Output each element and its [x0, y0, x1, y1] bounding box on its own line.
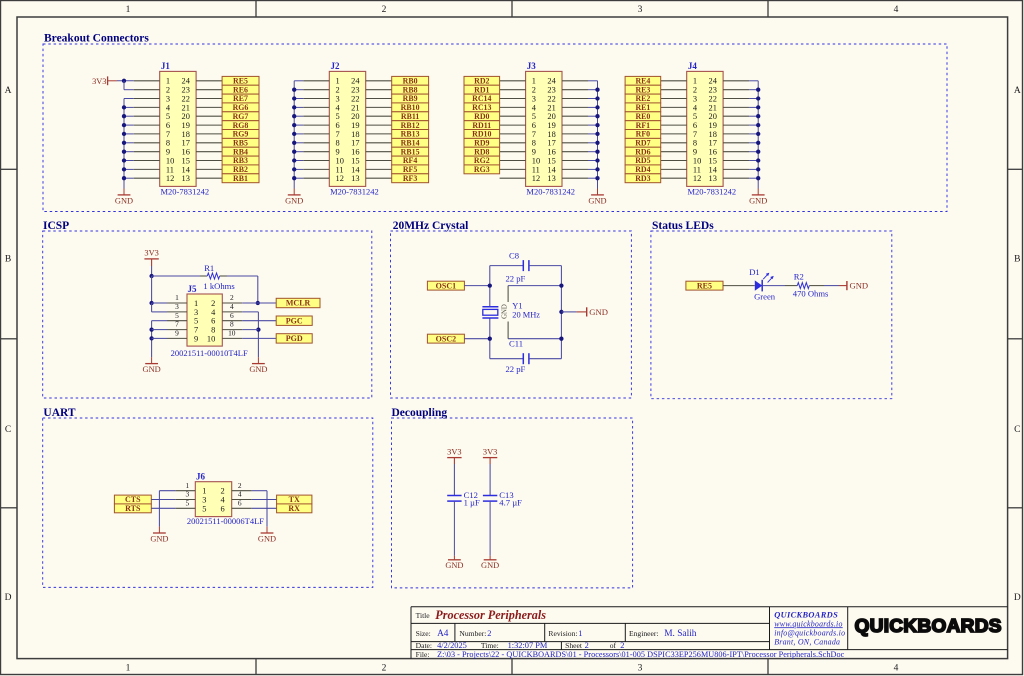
svg-text:RG8: RG8	[233, 121, 249, 130]
svg-text:18: 18	[547, 130, 555, 139]
svg-text:J3: J3	[527, 61, 537, 71]
svg-text:A: A	[1014, 86, 1021, 96]
svg-text:1: 1	[578, 629, 582, 638]
svg-text:R2: R2	[794, 272, 804, 282]
svg-text:19: 19	[182, 121, 190, 130]
svg-text:J6: J6	[196, 472, 206, 482]
svg-text:C: C	[5, 425, 11, 435]
svg-text:1 µF: 1 µF	[464, 498, 480, 508]
svg-text:RD1: RD1	[474, 85, 489, 94]
svg-text:GND: GND	[589, 307, 608, 317]
svg-text:5: 5	[693, 112, 697, 121]
svg-text:2: 2	[532, 86, 536, 95]
svg-text:7: 7	[166, 130, 170, 139]
svg-text:10: 10	[532, 156, 540, 165]
svg-text:PGD: PGD	[286, 334, 303, 343]
svg-text:Brant, ON, Canada: Brant, ON, Canada	[774, 638, 840, 647]
svg-text:RE2: RE2	[635, 94, 650, 103]
svg-text:17: 17	[709, 139, 717, 148]
svg-text:Sheet: Sheet	[565, 641, 583, 650]
svg-text:RD7: RD7	[635, 139, 650, 148]
svg-text:Y1: Y1	[512, 302, 522, 311]
svg-text:J4: J4	[688, 61, 698, 71]
svg-text:3: 3	[166, 94, 170, 103]
svg-text:8: 8	[166, 139, 170, 148]
svg-text:GND: GND	[445, 561, 463, 570]
svg-text:RD0: RD0	[474, 112, 489, 121]
svg-text:22: 22	[351, 94, 359, 103]
svg-text:11: 11	[693, 165, 701, 174]
svg-text:RE6: RE6	[233, 85, 248, 94]
svg-text:3: 3	[202, 496, 206, 505]
svg-text:Processor Peripherals: Processor Peripherals	[435, 608, 546, 622]
svg-text:C8: C8	[509, 250, 519, 260]
svg-text:3: 3	[185, 490, 189, 499]
svg-text:15: 15	[709, 156, 717, 165]
svg-text:20: 20	[709, 112, 717, 121]
svg-text:6: 6	[336, 121, 340, 130]
svg-text:13: 13	[351, 174, 359, 183]
svg-text:GND: GND	[749, 197, 767, 206]
svg-text:20021511-00010T4LF: 20021511-00010T4LF	[171, 348, 248, 358]
svg-text:2: 2	[211, 299, 215, 308]
svg-text:Engineer:: Engineer:	[629, 629, 659, 638]
svg-text:15: 15	[351, 156, 359, 165]
svg-text:RD4: RD4	[635, 165, 650, 174]
svg-text:QUICKBOARDS: QUICKBOARDS	[855, 615, 1002, 636]
svg-text:5: 5	[532, 112, 536, 121]
svg-text:B: B	[1014, 255, 1020, 265]
svg-text:12: 12	[693, 174, 701, 183]
svg-text:13: 13	[547, 174, 555, 183]
svg-text:D: D	[5, 593, 12, 603]
svg-text:20: 20	[351, 112, 359, 121]
svg-text:RC13: RC13	[472, 103, 491, 112]
svg-text:9: 9	[166, 148, 170, 157]
svg-text:RG2: RG2	[474, 156, 490, 165]
svg-text:15: 15	[547, 156, 555, 165]
svg-text:1: 1	[336, 77, 340, 86]
svg-text:RB13: RB13	[401, 130, 420, 139]
svg-text:2: 2	[382, 5, 387, 15]
svg-text:10: 10	[228, 329, 236, 338]
svg-text:6: 6	[238, 498, 242, 507]
svg-text:GND: GND	[150, 535, 168, 544]
svg-text:2: 2	[620, 641, 624, 650]
svg-text:Breakout Connectors: Breakout Connectors	[44, 32, 149, 44]
svg-text:19: 19	[709, 121, 717, 130]
svg-text:10: 10	[166, 156, 174, 165]
svg-text:20: 20	[547, 112, 555, 121]
svg-text:RF1: RF1	[636, 121, 651, 130]
svg-text:J1: J1	[161, 61, 171, 71]
svg-text:4/2/2025: 4/2/2025	[437, 641, 467, 650]
svg-text:2: 2	[585, 641, 589, 650]
svg-text:4: 4	[894, 5, 899, 15]
svg-text:QUICKBOARDS: QUICKBOARDS	[774, 610, 838, 619]
svg-text:5: 5	[166, 112, 170, 121]
svg-text:13: 13	[709, 174, 717, 183]
svg-text:7: 7	[194, 326, 198, 335]
svg-text:RG3: RG3	[474, 165, 490, 174]
svg-text:C: C	[1014, 425, 1020, 435]
svg-text:3: 3	[336, 94, 340, 103]
svg-text:RF3: RF3	[403, 174, 418, 183]
svg-text:2: 2	[336, 86, 340, 95]
svg-text:5: 5	[194, 317, 198, 326]
svg-text:1 kOhms: 1 kOhms	[203, 281, 235, 291]
svg-text:5: 5	[336, 112, 340, 121]
svg-text:GND: GND	[249, 365, 267, 374]
svg-text:23: 23	[182, 86, 190, 95]
svg-text:Decoupling: Decoupling	[392, 407, 448, 419]
svg-text:14: 14	[709, 165, 718, 174]
svg-text:D: D	[1014, 593, 1021, 603]
svg-text:23: 23	[547, 86, 555, 95]
svg-text:RB12: RB12	[401, 121, 420, 130]
svg-text:6: 6	[693, 121, 697, 130]
svg-text:16: 16	[547, 148, 555, 157]
svg-text:Number:: Number:	[459, 629, 486, 638]
svg-text:21: 21	[351, 103, 359, 112]
svg-text:R1: R1	[204, 263, 214, 273]
svg-text:Date:: Date:	[416, 641, 432, 650]
svg-text:2: 2	[693, 86, 697, 95]
svg-text:A4: A4	[437, 629, 449, 639]
svg-text:1:32:07 PM: 1:32:07 PM	[508, 641, 548, 650]
svg-text:RB15: RB15	[401, 147, 420, 156]
svg-text:RB1: RB1	[233, 174, 248, 183]
svg-text:OSC2: OSC2	[436, 334, 456, 343]
svg-text:RD5: RD5	[635, 156, 650, 165]
svg-text:21: 21	[709, 103, 717, 112]
svg-text:9: 9	[532, 148, 536, 157]
svg-text:Size:: Size:	[416, 629, 431, 638]
svg-text:ICSP: ICSP	[43, 220, 69, 232]
svg-text:24: 24	[182, 77, 191, 86]
svg-text:3V3: 3V3	[92, 77, 106, 86]
svg-text:20: 20	[182, 112, 190, 121]
svg-text:RB4: RB4	[233, 147, 248, 156]
svg-text:RB10: RB10	[401, 103, 420, 112]
svg-text:11: 11	[166, 165, 174, 174]
svg-text:5: 5	[175, 311, 179, 320]
svg-text:A: A	[5, 86, 12, 96]
svg-text:1: 1	[185, 481, 189, 490]
svg-text:7: 7	[532, 130, 536, 139]
svg-text:2: 2	[487, 629, 491, 638]
svg-text:2: 2	[221, 487, 225, 496]
svg-text:12: 12	[166, 174, 174, 183]
svg-text:8: 8	[230, 320, 234, 329]
svg-text:RF4: RF4	[403, 156, 418, 165]
svg-text:RD2: RD2	[474, 77, 489, 86]
svg-text:Time:: Time:	[481, 641, 499, 650]
svg-text:11: 11	[336, 165, 344, 174]
svg-text:RG7: RG7	[233, 112, 249, 121]
svg-text:PGC: PGC	[286, 316, 303, 325]
svg-text:6: 6	[532, 121, 536, 130]
svg-text:CTS: CTS	[125, 495, 141, 504]
svg-text:info@quickboards.io: info@quickboards.io	[774, 628, 845, 637]
svg-text:RD10: RD10	[472, 130, 491, 139]
svg-text:RB2: RB2	[233, 165, 248, 174]
svg-text:TX: TX	[289, 495, 300, 504]
svg-text:RD11: RD11	[472, 121, 491, 130]
svg-text:17: 17	[547, 139, 555, 148]
svg-text:7: 7	[175, 320, 179, 329]
svg-text:RB3: RB3	[233, 156, 248, 165]
svg-text:6: 6	[166, 121, 170, 130]
svg-text:Status LEDs: Status LEDs	[652, 220, 714, 232]
svg-text:10: 10	[336, 156, 344, 165]
svg-text:Z:\03 - Projects\22 - QUICKBOA: Z:\03 - Projects\22 - QUICKBOARDS\01 - P…	[437, 650, 845, 659]
svg-text:2: 2	[166, 86, 170, 95]
svg-text:10: 10	[207, 334, 215, 343]
svg-text:RB0: RB0	[403, 77, 418, 86]
svg-text:4: 4	[894, 664, 899, 674]
svg-text:1: 1	[166, 77, 170, 86]
svg-text:12: 12	[336, 174, 344, 183]
svg-text:2: 2	[238, 481, 242, 490]
svg-text:2: 2	[230, 293, 234, 302]
svg-text:22 pF: 22 pF	[506, 274, 526, 284]
svg-text:14: 14	[351, 165, 360, 174]
svg-text:14: 14	[547, 165, 556, 174]
svg-text:RC14: RC14	[472, 94, 491, 103]
svg-text:RD8: RD8	[474, 147, 489, 156]
svg-text:B: B	[5, 255, 11, 265]
svg-text:3V3: 3V3	[447, 447, 461, 456]
svg-text:8: 8	[693, 139, 697, 148]
svg-text:22: 22	[709, 94, 717, 103]
svg-text:11: 11	[532, 165, 540, 174]
svg-text:4: 4	[238, 490, 242, 499]
svg-text:2: 2	[382, 664, 387, 674]
svg-text:3: 3	[638, 5, 643, 15]
svg-text:18: 18	[351, 130, 359, 139]
svg-text:M20-7831242: M20-7831242	[526, 186, 575, 196]
svg-text:RD9: RD9	[474, 139, 489, 148]
svg-text:20021511-00006T4LF: 20021511-00006T4LF	[187, 516, 264, 526]
svg-text:1: 1	[126, 664, 131, 674]
svg-text:5: 5	[202, 504, 206, 513]
svg-text:19: 19	[547, 121, 555, 130]
svg-text:GND: GND	[481, 561, 499, 570]
svg-text:UART: UART	[43, 407, 76, 419]
svg-text:4.7 µF: 4.7 µF	[499, 498, 522, 508]
svg-text:RE7: RE7	[233, 94, 248, 103]
svg-text:GND: GND	[258, 535, 276, 544]
svg-text:M20-7831242: M20-7831242	[330, 186, 379, 196]
svg-text:GND: GND	[115, 197, 133, 206]
svg-text:J2: J2	[331, 61, 341, 71]
svg-text:D1: D1	[749, 267, 760, 277]
svg-text:6: 6	[221, 504, 225, 513]
svg-text:8: 8	[211, 326, 215, 335]
svg-text:22: 22	[182, 94, 190, 103]
svg-text:RE1: RE1	[635, 103, 650, 112]
svg-text:RG6: RG6	[233, 103, 249, 112]
svg-text:RB8: RB8	[403, 85, 418, 94]
svg-text:RD6: RD6	[635, 147, 650, 156]
svg-text:GND: GND	[850, 281, 869, 291]
svg-text:RE5: RE5	[697, 281, 712, 290]
svg-text:GND: GND	[285, 197, 303, 206]
svg-text:1: 1	[175, 293, 179, 302]
svg-text:RB11: RB11	[401, 112, 419, 121]
svg-text:17: 17	[182, 139, 190, 148]
svg-text:3V3: 3V3	[483, 447, 497, 456]
svg-text:22 pF: 22 pF	[506, 364, 526, 374]
svg-text:3V3: 3V3	[144, 249, 158, 258]
svg-text:M20-7831242: M20-7831242	[161, 186, 210, 196]
svg-text:Green: Green	[754, 292, 776, 302]
svg-text:GND: GND	[502, 304, 509, 319]
svg-text:19: 19	[351, 121, 359, 130]
svg-text:14: 14	[182, 165, 191, 174]
svg-text:23: 23	[351, 86, 359, 95]
svg-text:RG9: RG9	[233, 130, 249, 139]
svg-text:3: 3	[532, 94, 536, 103]
svg-text:20 MHz: 20 MHz	[512, 310, 540, 319]
svg-text:of: of	[610, 641, 617, 650]
svg-text:21: 21	[182, 103, 190, 112]
svg-text:J5: J5	[188, 284, 198, 294]
svg-text:9: 9	[693, 148, 697, 157]
svg-text:22: 22	[547, 94, 555, 103]
svg-text:6: 6	[211, 317, 215, 326]
svg-text:Title: Title	[416, 611, 431, 620]
svg-text:MCLR: MCLR	[286, 299, 311, 308]
svg-text:10: 10	[693, 156, 701, 165]
svg-text:RTS: RTS	[125, 504, 141, 513]
svg-text:24: 24	[709, 77, 718, 86]
svg-text:12: 12	[532, 174, 540, 183]
svg-text:5: 5	[185, 498, 189, 507]
svg-text:C11: C11	[509, 338, 523, 348]
svg-text:8: 8	[336, 139, 340, 148]
svg-text:17: 17	[351, 139, 359, 148]
svg-text:Revision:: Revision:	[548, 629, 577, 638]
svg-text:470 Ohms: 470 Ohms	[793, 288, 829, 298]
svg-text:www.quickboards.io: www.quickboards.io	[774, 619, 843, 628]
svg-text:GND: GND	[588, 197, 606, 206]
svg-text:3: 3	[638, 664, 643, 674]
svg-text:9: 9	[194, 334, 198, 343]
svg-text:18: 18	[709, 130, 717, 139]
svg-text:3: 3	[693, 94, 697, 103]
svg-text:RX: RX	[288, 504, 300, 513]
svg-text:6: 6	[230, 311, 234, 320]
svg-text:4: 4	[230, 302, 234, 311]
svg-text:File:: File:	[416, 650, 430, 659]
svg-text:3: 3	[175, 302, 179, 311]
svg-text:7: 7	[336, 130, 340, 139]
svg-text:RB5: RB5	[233, 139, 248, 148]
svg-text:15: 15	[182, 156, 190, 165]
svg-text:RB9: RB9	[403, 94, 418, 103]
svg-text:23: 23	[709, 86, 717, 95]
svg-text:OSC1: OSC1	[436, 281, 456, 290]
svg-text:16: 16	[182, 148, 190, 157]
svg-text:18: 18	[182, 130, 190, 139]
svg-text:1: 1	[693, 77, 697, 86]
svg-text:RB14: RB14	[401, 139, 420, 148]
svg-text:RF5: RF5	[403, 165, 418, 174]
svg-text:RE3: RE3	[635, 85, 650, 94]
svg-text:1: 1	[532, 77, 536, 86]
svg-text:GND: GND	[143, 365, 161, 374]
svg-text:M20-7831242: M20-7831242	[688, 186, 737, 196]
svg-text:RE4: RE4	[635, 77, 650, 86]
svg-text:1: 1	[202, 487, 206, 496]
svg-text:21: 21	[547, 103, 555, 112]
svg-text:13: 13	[182, 174, 190, 183]
svg-text:8: 8	[532, 139, 536, 148]
svg-text:1: 1	[126, 5, 131, 15]
svg-text:RE5: RE5	[233, 77, 248, 86]
svg-text:1: 1	[194, 299, 198, 308]
svg-text:M. Salih: M. Salih	[664, 629, 697, 639]
svg-text:24: 24	[547, 77, 556, 86]
svg-text:RF0: RF0	[636, 130, 651, 139]
svg-text:3: 3	[194, 308, 198, 317]
svg-text:RD3: RD3	[635, 174, 650, 183]
svg-text:16: 16	[709, 148, 717, 157]
svg-text:9: 9	[336, 148, 340, 157]
svg-text:16: 16	[351, 148, 359, 157]
svg-text:RE0: RE0	[635, 112, 650, 121]
svg-text:24: 24	[351, 77, 360, 86]
svg-text:9: 9	[175, 329, 179, 338]
svg-text:20MHz Crystal: 20MHz Crystal	[393, 220, 469, 232]
svg-text:7: 7	[693, 130, 697, 139]
